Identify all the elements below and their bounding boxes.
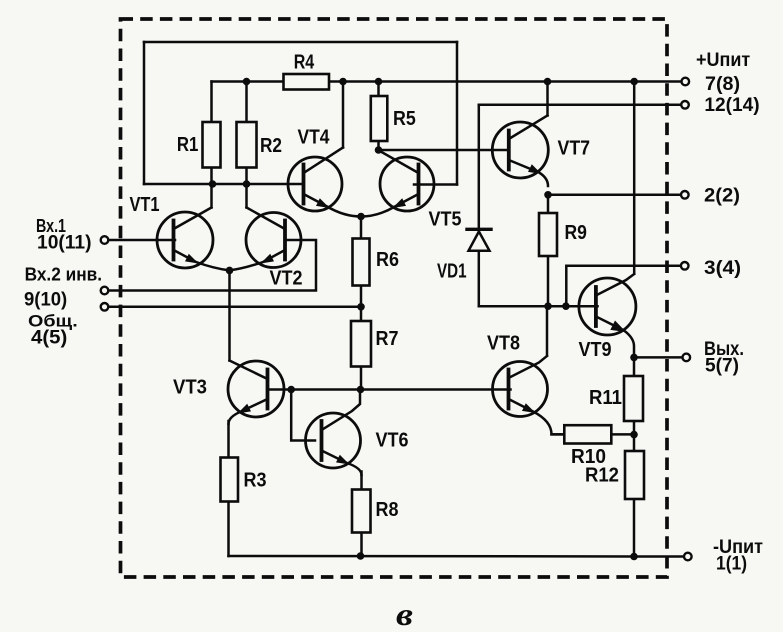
svg-text:R4: R4 [294, 52, 315, 74]
svg-text:R8: R8 [376, 499, 399, 521]
svg-text:VT8: VT8 [487, 333, 520, 355]
svg-text:R9: R9 [565, 222, 587, 244]
svg-text:4(5): 4(5) [31, 328, 67, 349]
svg-text:2(2): 2(2) [704, 186, 740, 207]
svg-text:9(10): 9(10) [24, 290, 67, 311]
svg-text:VD1: VD1 [437, 261, 467, 283]
svg-text:VT7: VT7 [558, 138, 591, 160]
svg-text:VT6: VT6 [376, 430, 409, 452]
svg-text:R2: R2 [260, 135, 282, 157]
svg-text:VT9: VT9 [579, 339, 612, 361]
svg-text:+Uпит: +Uпит [696, 50, 750, 71]
svg-text:3(4): 3(4) [704, 258, 741, 279]
svg-text:R1: R1 [177, 134, 199, 156]
svg-text:R7: R7 [376, 328, 399, 350]
svg-text:R3: R3 [244, 470, 267, 492]
svg-text:10(11): 10(11) [37, 233, 92, 254]
svg-text:R6: R6 [376, 249, 399, 271]
svg-text:7(8): 7(8) [705, 74, 740, 95]
svg-text:VT5: VT5 [429, 209, 462, 231]
svg-text:1(1): 1(1) [716, 554, 747, 575]
svg-text:R12: R12 [585, 465, 619, 487]
svg-text:в: в [396, 596, 413, 627]
svg-text:VT4: VT4 [298, 127, 331, 149]
svg-text:5(7): 5(7) [705, 356, 739, 377]
svg-text:VT3: VT3 [173, 377, 207, 399]
svg-text:12(14): 12(14) [704, 95, 759, 116]
svg-text:VT1: VT1 [130, 194, 160, 216]
svg-text:Вх.2 инв.: Вх.2 инв. [25, 264, 103, 285]
svg-text:VT2: VT2 [270, 268, 303, 290]
svg-text:R5: R5 [393, 108, 416, 130]
svg-text:R11: R11 [589, 387, 622, 409]
